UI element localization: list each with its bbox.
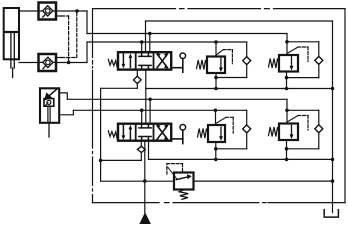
- V1 left cell parallel arrows: [122, 53, 133, 68]
- manifold block enclosure: [93, 9, 346, 203]
- anti-cavitation check diamond module 3: [243, 125, 251, 133]
- directional valve V1 body: [118, 52, 171, 69]
- pilot line from CV1 to line B: [56, 16, 69, 63]
- load check diamond under valve V2: [137, 146, 145, 152]
- cylinder 1 barrel: [4, 8, 19, 59]
- pilot check valve CV2 (lower): [39, 54, 57, 71]
- return bus (right side): [332, 21, 334, 213]
- tank gallery row 2: [149, 141, 333, 160]
- V1 return spring: [108, 59, 118, 66]
- actuator 2 (motor/valve unit at left): [40, 88, 59, 137]
- pump supply riser and flow triangle: [139, 141, 151, 224]
- relief valve RV1 (module top-left): [197, 50, 233, 73]
- V2 manual lever: [171, 125, 185, 144]
- V2 left cell parallel arrows: [122, 125, 133, 140]
- wire net A2: [67, 99, 318, 159]
- actuator 2 port wires: [59, 93, 73, 115]
- V2 right cell crossed arrows: [157, 124, 167, 140]
- relief valve RV2 (module top-right): [269, 47, 309, 72]
- anti-cavitation check diamond module 1: [243, 57, 251, 65]
- pump pressure line: [101, 180, 333, 182]
- relief valve RV3 (module bottom-left): [198, 117, 234, 142]
- pressure branch P2: [140, 141, 142, 161]
- tank gallery from valve V1 top: [146, 21, 333, 52]
- main relief valve RV5 (system relief): [167, 164, 194, 200]
- V1 centre cell blocked ports: [139, 52, 151, 69]
- anti-cavitation check diamond module 4: [315, 125, 323, 133]
- wire net A1 (cylinder top port / line A): [19, 11, 319, 89]
- tank symbol: [324, 210, 338, 218]
- wire net B1 (cylinder bottom port / line B): [19, 42, 247, 89]
- pressure gallery P1: [101, 70, 142, 182]
- anti-cavitation check diamond module 2: [315, 56, 323, 64]
- directional valve V2 body: [118, 124, 171, 141]
- relief valve RV4 (module bottom-right): [269, 116, 309, 141]
- pilot line from CV2 to line A: [56, 11, 77, 58]
- V1 manual lever: [171, 53, 185, 72]
- V2 centre cell blocked ports: [139, 124, 151, 141]
- tank gallery row 1: [146, 70, 333, 124]
- pilot check valve CV1 (upper): [39, 3, 57, 20]
- V1 right cell crossed arrows: [157, 53, 167, 69]
- wire net B2: [73, 110, 246, 159]
- load check diamond under valve V1: [134, 76, 142, 83]
- cylinder 1 rod: [11, 33, 14, 78]
- V2 return spring: [108, 131, 118, 138]
